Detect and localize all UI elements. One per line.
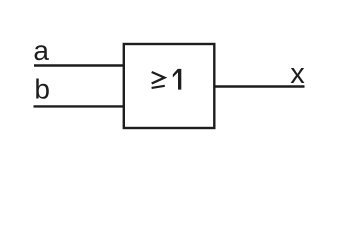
- OR gate U1 (IEC symbol): [124, 44, 215, 128]
- wire input a: [34, 64, 124, 66]
- wire output x: [214, 85, 305, 87]
- label 1: [173, 69, 182, 90]
- wire input b: [34, 105, 125, 107]
- label ≥ (underbar): [152, 86, 165, 88]
- svg-text:x: x: [290, 58, 305, 90]
- svg-text:a: a: [33, 35, 49, 66]
- svg-text:b: b: [34, 74, 50, 105]
- label ≥ (chevron): [152, 72, 165, 84]
